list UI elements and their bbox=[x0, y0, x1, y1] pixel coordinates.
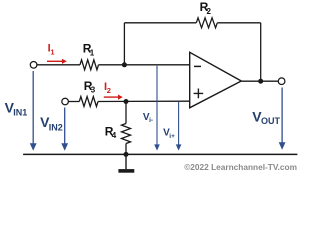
wire op-amp output bbox=[241, 80, 278, 82]
svg-text:3: 3 bbox=[91, 86, 96, 95]
label R1 bbox=[83, 42, 95, 58]
resistor R4 bbox=[122, 124, 131, 144]
wire input1 to R1 bbox=[37, 64, 80, 66]
wire feedback down to output node bbox=[260, 23, 262, 81]
wire feedback riser bbox=[123, 23, 125, 65]
label VIN1 bbox=[5, 99, 28, 117]
label VIN2 bbox=[40, 114, 63, 132]
label I2 bbox=[104, 81, 111, 95]
svg-text:IN1: IN1 bbox=[13, 108, 27, 118]
op-amp U1 bbox=[190, 52, 242, 108]
voltage arrow VIN1 bbox=[30, 71, 37, 151]
svg-text:2: 2 bbox=[107, 86, 111, 95]
svg-text:©2022 Learnchannel-TV.com: ©2022 Learnchannel-TV.com bbox=[184, 162, 297, 172]
wire R4 to rail bbox=[125, 144, 127, 155]
svg-text:2: 2 bbox=[207, 7, 212, 16]
reference rail wire bbox=[23, 153, 297, 155]
svg-text:4: 4 bbox=[112, 131, 117, 140]
svg-text:i-: i- bbox=[149, 117, 153, 124]
input terminal 1 bbox=[30, 62, 37, 69]
op-amp minus sign bbox=[194, 65, 201, 67]
wire R3 to op-amp non-inverting input bbox=[98, 100, 190, 102]
voltage arrow VOUT bbox=[279, 88, 286, 150]
wire R1 to op-amp inverting input bbox=[99, 64, 190, 66]
label I1 bbox=[48, 43, 55, 57]
ground bbox=[125, 154, 127, 169]
svg-text:1: 1 bbox=[90, 48, 95, 57]
svg-text:1: 1 bbox=[50, 48, 54, 57]
node A junction dot (inverting input node) bbox=[122, 62, 127, 67]
svg-text:IN2: IN2 bbox=[49, 122, 63, 132]
voltage arrow vi- bbox=[154, 66, 160, 151]
wire node B to R4 bbox=[125, 102, 127, 124]
current arrow I1 bbox=[47, 59, 67, 64]
svg-text:OUT: OUT bbox=[261, 116, 281, 126]
wire R2 to right corner bbox=[217, 22, 260, 24]
label vi- bbox=[143, 112, 153, 124]
label R4 bbox=[105, 124, 117, 140]
resistor R2 bbox=[196, 18, 217, 28]
label vi+ bbox=[163, 128, 175, 140]
op-amp plus sign bbox=[194, 89, 204, 99]
svg-text:i+: i+ bbox=[169, 133, 175, 140]
current arrow I2 bbox=[104, 95, 123, 100]
voltage arrow VIN2 bbox=[61, 108, 68, 151]
wire input2 to R3 bbox=[68, 101, 79, 103]
wire top left to R2 bbox=[124, 22, 196, 24]
node B junction dot (non-inverting input node) bbox=[124, 99, 129, 104]
resistor R1 bbox=[80, 60, 99, 70]
label R3 bbox=[84, 79, 96, 95]
input terminal 2 bbox=[62, 98, 69, 105]
voltage arrow vi+ bbox=[176, 102, 182, 151]
label VOUT bbox=[252, 108, 280, 126]
label R2 bbox=[200, 0, 212, 16]
resistor R3 bbox=[79, 97, 98, 107]
rail junction dot bbox=[124, 152, 129, 157]
output terminal bbox=[278, 78, 285, 85]
output node junction dot bbox=[258, 79, 263, 84]
